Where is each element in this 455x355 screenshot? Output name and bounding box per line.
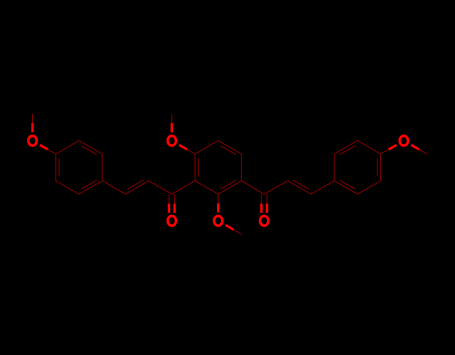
central benzene ring bond (lr-bot) xyxy=(218,181,241,194)
central benzene ring bond (bot-ll) xyxy=(195,181,218,194)
left ketone C=O double-bond line 1 (O half) xyxy=(168,204,170,213)
left methoxy O-CH3 bond (O half) xyxy=(31,123,33,132)
central top methoxy O-C(aryl) bond (C half) xyxy=(187,149,195,154)
right ketone C=O double-bond line 1 (O half) xyxy=(260,204,262,213)
left vinyl C=C second line xyxy=(127,180,143,189)
central benzene ring double bond inner line (top-ur) xyxy=(220,146,236,155)
left methoxy O-C(aryl) bond (C half) xyxy=(48,149,56,154)
right benzene ring double bond inner line (bot-ll) xyxy=(340,180,356,189)
left ketone atom label O xyxy=(168,216,176,226)
left chain bond CH-C(=O) xyxy=(149,181,172,194)
right benzene ring bond (ll-ul) xyxy=(333,154,335,181)
central top methoxy O-C(aryl) bond (O half) xyxy=(179,145,187,150)
right ketone C=O double-bond line 2 (C half) xyxy=(266,194,268,203)
right chain bond C(=O)-CH xyxy=(264,181,287,194)
left benzene ring bond C4-C5 (lr-bot) xyxy=(79,181,102,194)
left methoxy O-C(aryl) bond (O half) xyxy=(40,145,48,150)
central bottom methoxy O-CH3 bond (O half) xyxy=(226,225,234,230)
right ketone C=O double-bond line 1 (C half) xyxy=(260,194,262,203)
right methoxy O-C(aryl) bond (O half) xyxy=(389,145,397,150)
central top methoxy O-CH3 bond (O half) xyxy=(171,123,173,132)
right chain bond ring-C(=O) xyxy=(241,181,264,194)
right vinyl bond CH-Ar xyxy=(311,181,334,194)
left ketone C=O double-bond line 2 (O half) xyxy=(173,204,175,213)
central top methoxy atom label O xyxy=(168,136,176,146)
right benzene ring bond (bot-ll) xyxy=(334,181,357,194)
left benzene ring double bond inner line (lr-bot) xyxy=(81,180,97,189)
right methoxy O-CH3 bond (C half) xyxy=(419,149,427,154)
central bottom methoxy O-CH3 bond (C half) xyxy=(233,230,241,235)
left methoxy O-CH3 bond (C half) xyxy=(32,114,34,123)
left ketone C=O double-bond line 2 (C half) xyxy=(174,194,176,203)
right methoxy O-CH3 bond (O half) xyxy=(411,145,419,150)
right vinyl C=C second line xyxy=(293,180,309,190)
left vinyl bond Ar-CH xyxy=(102,181,125,194)
central top methoxy O-CH3 bond (C half) xyxy=(171,114,173,123)
central benzene ring bond (ul-top) xyxy=(195,141,218,154)
central benzene ring double bond inner line (lr-bot) xyxy=(220,180,236,189)
right benzene ring bond (lr-bot) xyxy=(357,181,380,194)
right benzene ring bond (top-ur) xyxy=(357,141,380,154)
central benzene ring bond (top-ur) xyxy=(218,141,241,154)
left ketone C=O double-bond line 1 (C half) xyxy=(168,194,170,203)
right benzene ring double bond inner line (ur-lr) xyxy=(376,159,378,177)
right vinyl C=C bond xyxy=(288,181,311,194)
central benzene ring bond (ll-ul) xyxy=(194,154,196,181)
right ketone C=O double-bond line 2 (O half) xyxy=(266,204,268,213)
right benzene ring bond (ur-lr) xyxy=(380,154,382,181)
left benzene ring bond C6-C1 (ll-ul) xyxy=(55,154,57,181)
left vinyl C=C bond xyxy=(125,181,148,194)
central benzene ring double bond inner line (ll-ul) xyxy=(197,159,199,177)
central bottom methoxy O-C(aryl) bond (O half) xyxy=(217,203,219,212)
left methoxy atom label O xyxy=(28,136,36,146)
left benzene ring bond C5-C6 (bot-ll) xyxy=(56,181,79,194)
central bottom methoxy atom label O xyxy=(214,216,222,226)
right methoxy O-C(aryl) bond (C half) xyxy=(381,149,389,154)
right benzene ring bond (ul-top) xyxy=(334,141,357,154)
right methoxy atom label O xyxy=(400,136,408,146)
left benzene ring bond C2-C3 (top-ur) xyxy=(79,141,102,154)
central benzene ring bond (ur-lr) xyxy=(240,154,242,181)
left benzene ring double bond inner line (top-ur) xyxy=(81,146,97,155)
left benzene ring bond C1-C2 (ul-top) xyxy=(56,141,79,154)
right ketone atom label O xyxy=(260,216,268,226)
left benzene ring bond C3-C4 (ur-lr) xyxy=(101,154,103,181)
left chain bond C(=O)-ring xyxy=(172,181,195,194)
right benzene ring double bond inner line (ul-top) xyxy=(340,146,356,155)
left benzene ring double bond inner line (ll-ul) xyxy=(58,159,60,177)
central bottom methoxy O-C(aryl) bond (C half) xyxy=(217,194,219,203)
